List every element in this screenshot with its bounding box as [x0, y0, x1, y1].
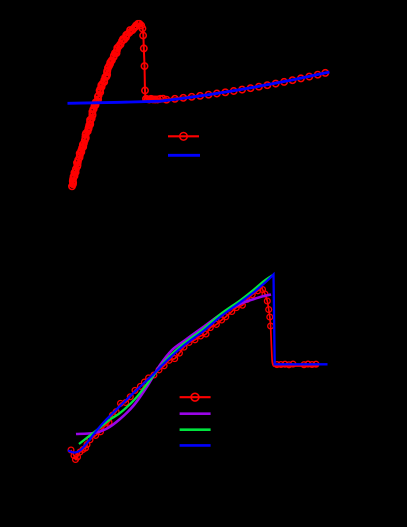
top blue model line — [68, 72, 330, 103]
bottom blue model curve — [68, 275, 328, 453]
top red circle markers — [69, 21, 329, 190]
bottom legend purple entry — [180, 412, 211, 415]
bottom legend green entry — [180, 428, 211, 431]
bottom legend blue entry — [180, 444, 211, 447]
bottom red circle markers — [68, 287, 319, 463]
top red experimental curve line — [72, 24, 327, 187]
top legend blue entry — [168, 154, 200, 157]
bottom red experimental curve line — [71, 287, 319, 459]
top legend red entry — [168, 133, 199, 141]
bottom purple model curve — [76, 295, 271, 435]
bottom legend red entry — [180, 393, 211, 401]
bottom green model curve — [79, 275, 273, 444]
